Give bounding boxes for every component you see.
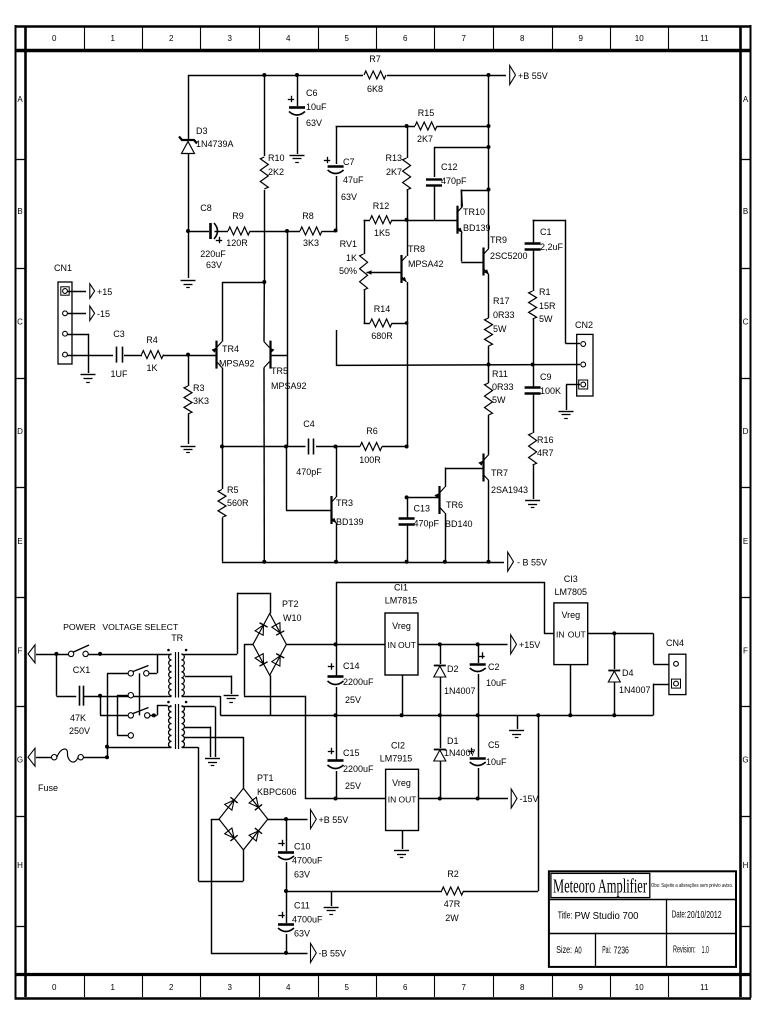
svg-text:11: 11 xyxy=(700,34,709,43)
node CI3 gnd rail xyxy=(568,713,572,717)
svg-text:POWER: POWER xyxy=(63,622,96,632)
wire TR10e-TR9b xyxy=(461,262,483,264)
svg-text:R1: R1 xyxy=(539,287,551,297)
wire RV1 wiper to TR8 base xyxy=(372,272,401,274)
svg-text:10: 10 xyxy=(635,34,644,43)
transformer TR bottom secondary xyxy=(182,706,186,748)
svg-text:PW Studio 700: PW Studio 700 xyxy=(575,910,639,922)
flag -B 55V top xyxy=(508,552,547,571)
title row title xyxy=(558,910,639,923)
node C14 top xyxy=(334,642,338,646)
flag -B 55V ps xyxy=(311,943,347,962)
node switch-riser xyxy=(98,652,102,656)
wire TR8 collector xyxy=(407,220,409,256)
svg-text:2: 2 xyxy=(169,983,174,992)
wire fuse left xyxy=(36,757,52,759)
svg-text:G: G xyxy=(17,756,23,765)
resistor R3 xyxy=(184,355,209,444)
connector CN4 xyxy=(666,638,686,695)
node cap-primary xyxy=(98,694,102,698)
flag -15V xyxy=(511,789,538,808)
wire CI2 gnd xyxy=(402,831,404,850)
potentiometer RV1 xyxy=(339,239,372,290)
transformer TR bottom primary xyxy=(168,706,172,748)
svg-text:0R33: 0R33 xyxy=(492,382,514,392)
wire PT2 left out xyxy=(244,644,305,696)
wire raw to CI3 xyxy=(336,582,554,645)
svg-text:Vreg: Vreg xyxy=(392,621,411,631)
svg-text:1.0: 1.0 xyxy=(702,944,709,956)
wire sel row2-4 link xyxy=(117,695,128,735)
wire fuse right xyxy=(83,757,107,759)
wire bot sec bottom to PT1 xyxy=(185,747,244,881)
svg-text:C3: C3 xyxy=(113,329,125,339)
svg-text:BD139: BD139 xyxy=(463,223,491,233)
svg-text:15R: 15R xyxy=(539,301,556,311)
wire C2 bottom xyxy=(478,674,480,715)
capacitor 47K 250V xyxy=(69,686,90,736)
wire C7 top stem xyxy=(336,126,338,164)
resistor R6 xyxy=(359,426,382,465)
wire D3 bottom xyxy=(188,154,190,278)
svg-text:9: 9 xyxy=(579,34,584,43)
svg-text:CI2: CI2 xyxy=(391,741,405,751)
wire input signal xyxy=(65,355,217,357)
node rail-TR3e xyxy=(334,560,338,564)
svg-text:A0: A0 xyxy=(575,945,582,957)
svg-text:63V: 63V xyxy=(341,192,357,202)
svg-text:0: 0 xyxy=(52,34,57,43)
wire TR10 collector link xyxy=(461,190,488,192)
svg-text:CI3: CI3 xyxy=(564,574,578,584)
svg-text:RV1: RV1 xyxy=(340,239,357,249)
svg-text:9: 9 xyxy=(579,983,584,992)
ground mid rail xyxy=(509,715,524,737)
wire emitters join xyxy=(222,282,264,284)
node R13 top xyxy=(405,124,409,128)
wire mains to switch xyxy=(36,654,68,656)
svg-text:CX1: CX1 xyxy=(73,665,91,675)
node out-R1 xyxy=(531,363,535,367)
resistor R11 xyxy=(485,365,514,453)
wire TR6 emitter up xyxy=(445,468,447,488)
wire bot sec top xyxy=(185,707,216,758)
wire TR6e-TR7b xyxy=(445,468,483,470)
svg-text:F: F xyxy=(743,647,748,656)
wire TR3 collector xyxy=(336,447,338,498)
svg-text:G: G xyxy=(742,756,748,765)
svg-text:1N4007: 1N4007 xyxy=(444,686,476,696)
switch sel 4 xyxy=(128,733,133,738)
wire R2 gnd stem xyxy=(331,891,333,906)
bridge rectifier PT2 W10 xyxy=(253,599,302,675)
wire TR3 emitter xyxy=(336,523,338,562)
transistor TR6 BD140 xyxy=(434,486,472,529)
svg-text:R9: R9 xyxy=(232,211,244,221)
wire TR9 emitter down xyxy=(488,275,490,319)
wire -B bottom xyxy=(211,953,308,955)
svg-text:Vreg: Vreg xyxy=(561,610,580,620)
ground C6 xyxy=(290,156,305,163)
node emitters-R10 xyxy=(262,280,266,284)
svg-text:2SA1943: 2SA1943 xyxy=(491,485,528,495)
svg-text:C14: C14 xyxy=(343,661,360,671)
label TR xyxy=(171,633,183,643)
switch sel C-D xyxy=(128,708,150,719)
svg-text:-15V: -15V xyxy=(520,794,539,804)
node R2 rail xyxy=(536,713,540,717)
resistor R12 xyxy=(370,201,392,238)
wire sel B right riser xyxy=(149,654,158,674)
svg-text:TR8: TR8 xyxy=(408,244,425,254)
svg-text:50%: 50% xyxy=(339,266,357,276)
wire cap branch left xyxy=(56,654,76,697)
title obs note xyxy=(651,883,733,889)
node 489-126 xyxy=(487,124,491,128)
resistor R1 xyxy=(529,287,556,365)
node TR4c-R5 xyxy=(220,445,224,449)
wire output node xyxy=(336,330,580,365)
transformer TR top secondary xyxy=(182,654,186,697)
node D2 top xyxy=(438,642,442,646)
node mains-cap xyxy=(54,652,58,656)
capacitor C10 xyxy=(278,819,323,879)
wire TR4 collector xyxy=(222,368,224,447)
svg-text:11: 11 xyxy=(700,983,709,992)
svg-text:C6: C6 xyxy=(306,88,318,98)
svg-text:2,2uF: 2,2uF xyxy=(540,242,564,252)
resistor R7 xyxy=(363,54,387,94)
wire ground rail xyxy=(220,715,653,717)
title row revision xyxy=(673,944,709,957)
title block frame xyxy=(549,871,736,967)
svg-text:BD140: BD140 xyxy=(445,519,473,529)
regulator CI1 LM7815 xyxy=(385,583,418,676)
svg-text:25V: 25V xyxy=(345,695,361,705)
label voltage select xyxy=(102,622,179,632)
svg-text:2K2: 2K2 xyxy=(268,167,284,177)
svg-text:1N4739A: 1N4739A xyxy=(196,139,234,149)
svg-text:TR6: TR6 xyxy=(446,500,463,510)
svg-text:R5: R5 xyxy=(227,485,239,495)
svg-text:H: H xyxy=(17,861,23,870)
svg-text:VOLTAGE SELECT: VOLTAGE SELECT xyxy=(102,622,179,632)
svg-text:IN: IN xyxy=(388,795,397,805)
node C11 minus xyxy=(284,951,288,955)
svg-text:1: 1 xyxy=(111,983,116,992)
wire R14 row xyxy=(364,323,370,325)
svg-text:4700uF: 4700uF xyxy=(292,856,323,866)
ground R3 xyxy=(181,447,196,453)
wire C10 bottom xyxy=(286,862,288,891)
wire bottom primary bottom xyxy=(107,746,169,749)
svg-text:CI1: CI1 xyxy=(394,583,408,593)
capacitor C13 xyxy=(399,497,440,561)
svg-text:1N4007: 1N4007 xyxy=(619,685,651,695)
wire ground rail to CN4 xyxy=(653,684,669,716)
node out-R17 xyxy=(487,363,491,367)
svg-text:+15: +15 xyxy=(97,287,112,297)
ground C10-C11 mid xyxy=(324,908,339,915)
svg-text:7: 7 xyxy=(462,983,467,992)
svg-text:680R: 680R xyxy=(371,331,393,341)
capacitor C4 xyxy=(296,419,322,477)
svg-text:120R: 120R xyxy=(226,238,248,248)
phase dot top left xyxy=(167,649,170,652)
svg-text:OUT: OUT xyxy=(398,640,416,650)
wire sel C left xyxy=(100,696,128,716)
svg-text:TR4: TR4 xyxy=(222,344,239,354)
svg-text:1K: 1K xyxy=(346,253,357,263)
wire sel mid vertical xyxy=(139,673,141,715)
svg-text:MPSA42: MPSA42 xyxy=(408,259,444,269)
svg-text:2K7: 2K7 xyxy=(417,134,433,144)
wire PT2 minus down xyxy=(305,696,386,799)
resistor R8 xyxy=(300,211,322,248)
svg-text:63V: 63V xyxy=(306,118,322,128)
node rail-TR5c xyxy=(262,560,266,564)
wire TR7 collector down xyxy=(488,481,490,562)
ground CN2 xyxy=(559,412,574,419)
svg-text:220uF: 220uF xyxy=(200,249,226,259)
ruler bands with row letters A-H xyxy=(15,95,751,927)
svg-text:D3: D3 xyxy=(196,126,208,136)
svg-text:8: 8 xyxy=(520,34,525,43)
svg-text:F: F xyxy=(18,647,23,656)
diode D2 xyxy=(434,644,476,715)
capacitor C1 xyxy=(525,227,564,252)
svg-text:BD139: BD139 xyxy=(336,517,364,527)
wire D3 top xyxy=(188,75,190,139)
wire PT1 right out xyxy=(268,819,308,821)
svg-text:R3: R3 xyxy=(193,383,205,393)
wire CI1 gnd xyxy=(402,675,404,715)
wire C7 bottom stem xyxy=(336,176,338,231)
wire C1 top link xyxy=(533,220,580,344)
node CI1 gnd rail xyxy=(400,713,404,717)
svg-text:1K5: 1K5 xyxy=(374,228,390,238)
fuse F1 xyxy=(38,749,83,793)
svg-text:470pF: 470pF xyxy=(414,519,440,529)
svg-text:OUT: OUT xyxy=(399,795,417,805)
resistor R15 xyxy=(415,108,437,144)
flag +15V xyxy=(511,635,541,654)
transformer TR top primary xyxy=(168,654,172,697)
svg-text:47R: 47R xyxy=(444,899,461,909)
wire TR7 emitter up xyxy=(488,452,490,455)
wire CN1 pin3 to ground xyxy=(68,334,89,373)
svg-text:LM7805: LM7805 xyxy=(555,587,588,597)
wire TR3 base path xyxy=(286,447,331,511)
svg-text:D: D xyxy=(17,427,23,436)
node C2 bottom xyxy=(476,713,480,717)
svg-text:6: 6 xyxy=(403,34,408,43)
wire input bias xyxy=(188,231,336,233)
transistor TR4 MPSA92 xyxy=(212,341,255,369)
svg-text:3: 3 xyxy=(228,34,233,43)
svg-text:+B 55V: +B 55V xyxy=(319,815,349,825)
svg-text:TR: TR xyxy=(171,633,183,643)
svg-text:10uF: 10uF xyxy=(486,757,507,767)
svg-text:TR3: TR3 xyxy=(336,498,353,508)
wire C7-R15 node xyxy=(336,126,489,128)
svg-text:R12: R12 xyxy=(373,201,390,211)
wire CN1 pin2 xyxy=(68,313,87,315)
svg-text:2: 2 xyxy=(169,34,174,43)
node R4-R3 xyxy=(186,353,190,357)
svg-text:R8: R8 xyxy=(302,211,314,221)
wire C9-R16 xyxy=(533,394,535,433)
svg-text:OUT: OUT xyxy=(568,630,586,640)
svg-text:TR5: TR5 xyxy=(271,366,288,376)
svg-text:B: B xyxy=(17,207,22,216)
node 489-147 xyxy=(487,145,491,149)
flag mains neutral xyxy=(28,748,35,766)
svg-text:63V: 63V xyxy=(294,870,310,880)
svg-text:470pF: 470pF xyxy=(296,467,322,477)
ground CI2 xyxy=(394,851,409,858)
transformer TR core top xyxy=(176,652,179,698)
svg-text:0: 0 xyxy=(52,983,57,992)
capacitor C9 xyxy=(525,365,561,397)
capacitor C5 xyxy=(468,715,507,767)
wire sel row2 xyxy=(117,695,128,697)
resistor R13 xyxy=(385,126,410,220)
resistor R4 xyxy=(142,335,164,373)
node 489-189 xyxy=(487,188,491,192)
capacitor C12 xyxy=(426,162,467,220)
node fuse-primary xyxy=(105,745,109,749)
wire R12 row xyxy=(364,220,457,222)
svg-text:PT1: PT1 xyxy=(257,773,274,783)
svg-text:63V: 63V xyxy=(294,929,310,939)
title row size xyxy=(556,944,581,957)
resistor R2 xyxy=(442,869,464,923)
capacitor C2 xyxy=(470,644,507,688)
transformer TR core bottom xyxy=(176,704,179,749)
svg-text:D4: D4 xyxy=(622,668,634,678)
svg-text:R10: R10 xyxy=(268,153,285,163)
node R14-TR8e xyxy=(405,321,409,325)
svg-text:10: 10 xyxy=(635,983,644,992)
svg-text:4: 4 xyxy=(286,34,291,43)
capacitor C6 xyxy=(288,88,327,128)
node rail-R10 xyxy=(262,73,266,77)
flag +B 55V ps xyxy=(311,810,349,829)
wire TR5 emitter xyxy=(263,282,265,342)
svg-text:E: E xyxy=(17,537,22,546)
svg-text:KBPC606: KBPC606 xyxy=(257,787,297,797)
svg-text:C8: C8 xyxy=(200,203,212,213)
svg-text:C9: C9 xyxy=(540,372,552,382)
wire top sec top to PT2 xyxy=(185,593,271,655)
svg-text:CN2: CN2 xyxy=(575,320,593,330)
svg-text:5W: 5W xyxy=(539,314,553,324)
svg-text:C: C xyxy=(17,318,23,327)
flag +B 55V top xyxy=(510,66,548,85)
svg-text:H: H xyxy=(743,861,749,870)
node C14 bottom rail xyxy=(334,713,338,717)
capacitor C15 xyxy=(328,715,375,791)
capacitor C3 xyxy=(110,329,128,379)
node rail-C6 xyxy=(295,73,299,77)
node R6 right xyxy=(405,445,409,449)
svg-text:R17: R17 xyxy=(493,296,510,306)
svg-text:C11: C11 xyxy=(294,901,310,911)
node C13-TR6b xyxy=(405,495,409,499)
svg-text:W10: W10 xyxy=(283,613,302,623)
wire C12 top link xyxy=(434,147,489,177)
wire C11 bottom xyxy=(286,934,288,953)
svg-text:0R33: 0R33 xyxy=(493,310,515,320)
svg-text:B: B xyxy=(743,207,748,216)
svg-text:Date:: Date: xyxy=(672,909,687,921)
resistor R5 xyxy=(218,447,249,562)
bridge rectifier PT1 KBPC606 xyxy=(219,773,297,850)
node C10 top xyxy=(284,817,288,821)
wire bot sec tap2 to PT1 xyxy=(185,737,244,788)
svg-text:R2: R2 xyxy=(447,869,459,879)
ground bottom secondary xyxy=(205,759,220,766)
svg-text:1: 1 xyxy=(111,34,116,43)
resistor R10 xyxy=(260,153,284,189)
svg-text:Size:: Size: xyxy=(556,944,572,956)
wire TR8 emitter xyxy=(407,282,409,447)
wire C1-R1 xyxy=(533,249,535,291)
svg-text:C: C xyxy=(743,318,749,327)
node C15 bottom rail xyxy=(334,797,338,801)
svg-text:63V: 63V xyxy=(206,260,222,270)
node R12-R13 xyxy=(405,218,409,222)
svg-text:10uF: 10uF xyxy=(486,678,507,688)
wire TR9 collector xyxy=(488,247,490,249)
node D4 top xyxy=(612,631,616,635)
svg-text:100R: 100R xyxy=(359,455,381,465)
svg-text:-15: -15 xyxy=(97,309,110,319)
flag +15 xyxy=(90,284,112,298)
transistor TR5 MPSA92 xyxy=(264,341,307,391)
transistor TR9 2SC5200 xyxy=(483,235,527,276)
node C4 right xyxy=(334,445,338,449)
transistor TR7 2SA1943 xyxy=(478,454,528,496)
node D2 bottom xyxy=(438,713,442,717)
wire sel A left xyxy=(107,673,128,675)
svg-text:R4: R4 xyxy=(146,335,158,345)
svg-text:R11: R11 xyxy=(492,369,508,379)
ground transformer tap xyxy=(224,696,239,703)
resistor R17 xyxy=(485,296,515,365)
connector CN1 xyxy=(54,263,72,364)
svg-text:4R7: 4R7 xyxy=(537,448,554,458)
svg-text:A: A xyxy=(743,95,749,104)
node rail-TR6c xyxy=(443,560,447,564)
transistor TR10 BD139 xyxy=(457,206,491,234)
svg-text:Pai:: Pai: xyxy=(602,944,611,956)
flag -15 xyxy=(90,306,110,320)
regulator CI3 LM7805 xyxy=(554,574,588,665)
svg-text:20/10/2012: 20/10/2012 xyxy=(687,909,722,921)
svg-text:5: 5 xyxy=(345,34,350,43)
wire C15 bottom xyxy=(336,771,338,799)
wire feedback vertical xyxy=(287,231,289,447)
capacitor C11 xyxy=(278,891,323,939)
svg-text:R16: R16 xyxy=(537,435,554,445)
wire R10 top xyxy=(264,75,266,156)
svg-text:MPSA92: MPSA92 xyxy=(219,359,255,369)
svg-text:R15: R15 xyxy=(418,108,435,118)
svg-text:+15V: +15V xyxy=(519,640,540,650)
svg-text:- B 55V: - B 55V xyxy=(517,558,547,568)
